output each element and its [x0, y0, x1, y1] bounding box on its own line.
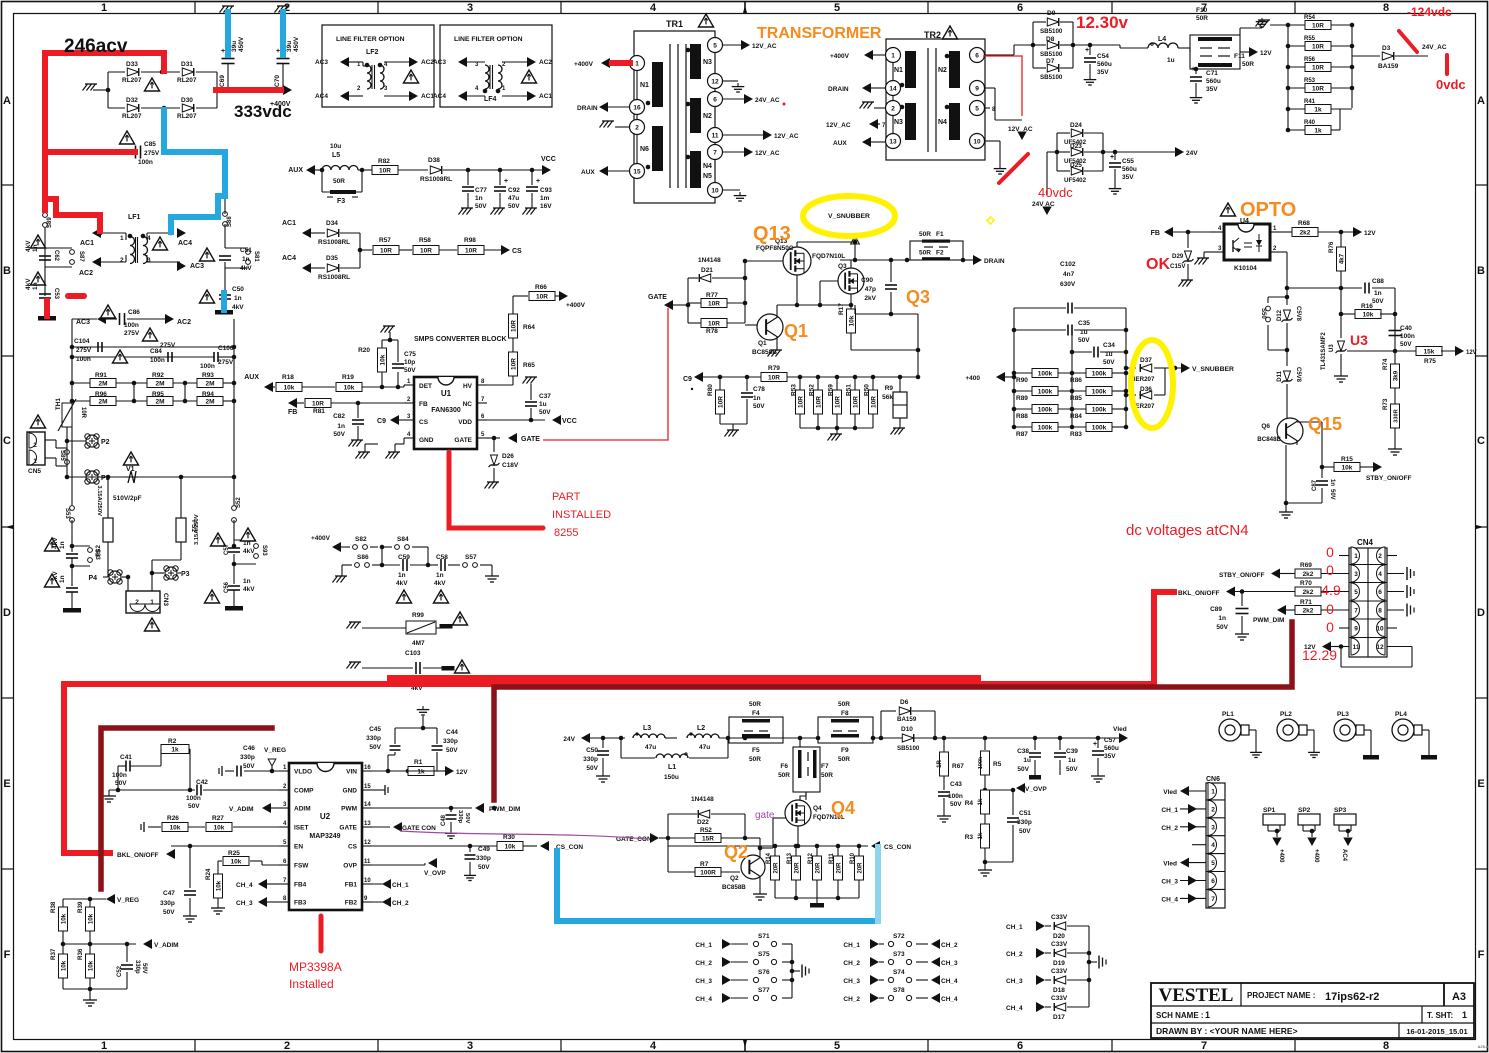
- warning triangle bridge: [144, 78, 159, 91]
- TR1 winding N2: [690, 98, 701, 133]
- svg-text:330p: 330p: [443, 738, 458, 745]
- svg-text:FSW: FSW: [294, 863, 309, 870]
- switch S88: [223, 212, 228, 217]
- svg-text:275V: 275V: [160, 342, 176, 349]
- svg-text:50R: 50R: [919, 250, 931, 257]
- svg-text:R55: R55: [1304, 36, 1316, 42]
- svg-text:Q1: Q1: [784, 321, 808, 341]
- LF2 pins wires: [348, 61, 363, 63]
- svg-text:C55: C55: [1122, 158, 1134, 165]
- svg-text:4: 4: [650, 2, 657, 14]
- 12V arrow out: [1249, 47, 1258, 57]
- 100k grid resistors: [1014, 372, 1032, 374]
- svg-text:AC2: AC2: [79, 270, 93, 277]
- svg-text:R74: R74: [1382, 358, 1389, 370]
- svg-text:2k2: 2k2: [1303, 589, 1314, 596]
- svg-text:6: 6: [1017, 1040, 1023, 1052]
- svg-text:S88: S88: [227, 216, 233, 227]
- resistor R36 10k vertical: [86, 954, 95, 978]
- svg-text:50V: 50V: [369, 744, 381, 751]
- svg-text:R95: R95: [152, 391, 164, 398]
- test point P2: [67, 440, 86, 442]
- TR2 pin 10: [970, 134, 985, 149]
- capacitor C88 1n 50V: [1364, 283, 1366, 294]
- TR1 pin 2: [630, 120, 645, 135]
- capacitor C87 1n 50V: [1321, 467, 1323, 478]
- svg-text:50V: 50V: [1078, 337, 1090, 344]
- svg-text:C75: C75: [404, 351, 416, 358]
- svg-text:2M: 2M: [205, 399, 214, 406]
- svg-text:R27: R27: [212, 815, 224, 822]
- wire left column: [44, 228, 46, 245]
- svg-text:C50: C50: [232, 286, 244, 293]
- svg-text:OVP: OVP: [343, 863, 357, 870]
- svg-text:15R: 15R: [702, 836, 714, 843]
- ground right S57: [491, 565, 493, 572]
- svg-text:1R: 1R: [937, 759, 943, 767]
- svg-text:VCC: VCC: [541, 156, 556, 163]
- resistor R26 10k: [148, 826, 161, 828]
- svg-text:50V: 50V: [1372, 298, 1384, 305]
- svg-text:50V: 50V: [1103, 359, 1115, 366]
- svg-text:S76: S76: [758, 969, 770, 976]
- svg-text:CH_4: CH_4: [1161, 896, 1178, 903]
- svg-text:0: 0: [1326, 619, 1334, 635]
- svg-text:C89: C89: [1210, 606, 1222, 613]
- svg-text:330p: 330p: [583, 756, 598, 763]
- wire HV pin8: [487, 384, 513, 386]
- zener D26 C18V: [493, 438, 495, 452]
- svg-text:Q4: Q4: [831, 798, 855, 818]
- resistor R57 10R: [373, 246, 399, 255]
- svg-text:47u: 47u: [645, 744, 656, 751]
- fuse FS2 3.15A/250V: [103, 518, 113, 542]
- svg-text:Vled: Vled: [1163, 789, 1177, 796]
- svg-text:100n: 100n: [112, 772, 127, 779]
- svg-text:C9: C9: [377, 418, 386, 425]
- svg-text:100k: 100k: [1038, 371, 1053, 378]
- svg-text:C84: C84: [150, 348, 162, 355]
- svg-text:50V: 50V: [475, 203, 487, 210]
- svg-text:R16: R16: [1361, 303, 1373, 310]
- svg-text:50V: 50V: [115, 780, 127, 787]
- diode D33 RL207: [127, 68, 138, 76]
- svg-text:R59: R59: [828, 384, 835, 396]
- wire red stub near C53: [68, 293, 84, 299]
- node bridge right: [217, 89, 286, 91]
- capacitor C55 560u 35V: [1114, 152, 1116, 160]
- svg-text:E: E: [3, 778, 10, 790]
- svg-text:0vdc: 0vdc: [1436, 77, 1466, 92]
- svg-text:+: +: [1191, 66, 1195, 73]
- capacitor C51 1n 4kV: [219, 255, 231, 257]
- wire Q1 emitter ground: [776, 336, 778, 350]
- svg-text:BA159: BA159: [897, 716, 917, 723]
- svg-text:C62: C62: [53, 250, 59, 262]
- svg-text:AC2: AC2: [539, 59, 552, 66]
- capacitor C57b 560u 35V: [1097, 738, 1099, 748]
- wire red C53 ground stub: [44, 301, 50, 316]
- svg-text:4kV: 4kV: [52, 537, 59, 549]
- thermistor TH1: [62, 403, 72, 427]
- svg-text:1n: 1n: [398, 572, 406, 579]
- capacitor C71 560u 35V: [1194, 67, 1199, 72]
- svg-text:10R: 10R: [379, 168, 391, 175]
- svg-text:P2: P2: [101, 439, 110, 446]
- svg-text:TL431SAMF2: TL431SAMF2: [1321, 332, 1327, 370]
- svg-text:C33V: C33V: [1051, 914, 1068, 921]
- svg-text:R9: R9: [885, 385, 894, 392]
- svg-text:7: 7: [713, 150, 717, 157]
- main drain rail: [840, 259, 910, 261]
- capacitor C49 330p 50V: [469, 846, 471, 852]
- switch S52: [232, 506, 237, 511]
- wire U3 ref to R74: [1347, 350, 1395, 352]
- chassis ground C69: [222, 5, 234, 7]
- svg-text:SB5100: SB5100: [1040, 28, 1063, 35]
- svg-text:275V: 275V: [76, 347, 92, 354]
- svg-text:F2: F2: [936, 250, 944, 257]
- capacitor C65 1n 4kV: [71, 520, 73, 552]
- 12V_AC arrow pin11: [763, 130, 772, 140]
- svg-text:CH_1: CH_1: [843, 942, 860, 949]
- svg-text:RS1008RL: RS1008RL: [318, 239, 350, 246]
- wire blue C50 stub: [221, 293, 227, 310]
- resistor R5 100k vertical: [984, 738, 986, 750]
- svg-text:1k: 1k: [171, 747, 179, 754]
- svg-text:S86: S86: [357, 554, 369, 561]
- svg-text:2: 2: [120, 257, 124, 264]
- capacitor C34 1u 50V: [1072, 351, 1092, 353]
- svg-text:4kV: 4kV: [232, 304, 244, 311]
- Q15 emitter ground: [1296, 440, 1298, 445]
- resistor R81 10R: [305, 399, 331, 408]
- svg-text:C39: C39: [1066, 748, 1078, 755]
- svg-text:Q6: Q6: [1261, 423, 1270, 430]
- wire R76 to U3: [1340, 288, 1342, 338]
- warning triangle C59: [396, 590, 411, 603]
- svg-text:R38: R38: [50, 901, 57, 913]
- svg-text:CN5: CN5: [28, 468, 41, 475]
- TR2 winding N1: [905, 51, 916, 88]
- svg-text:GATE: GATE: [339, 825, 357, 832]
- svg-text:S73: S73: [893, 951, 905, 958]
- svg-text:C: C: [1477, 435, 1485, 447]
- AC4 arrow D35: [302, 263, 311, 273]
- svg-text:50V: 50V: [586, 765, 598, 772]
- svg-text:4kV: 4kV: [25, 240, 32, 252]
- svg-text:F4: F4: [752, 710, 760, 717]
- transistor Q2 BC858B: [741, 855, 765, 879]
- svg-text:50V: 50V: [508, 203, 520, 210]
- svg-text:50V: 50V: [333, 431, 345, 438]
- svg-text:SB5100: SB5100: [1040, 51, 1063, 58]
- svg-text:35V: 35V: [1104, 753, 1116, 760]
- capacitor C59 1n 4kV: [382, 564, 400, 566]
- svg-text:5: 5: [834, 1040, 840, 1052]
- resistor R92 2M: [116, 382, 147, 384]
- CH_2 arrow U2: [372, 901, 390, 903]
- svg-text:330p: 330p: [1017, 819, 1032, 826]
- Q15 collector to R15: [1297, 421, 1322, 423]
- fuse F6 F7 vertical: [793, 747, 820, 792]
- svg-text:R37: R37: [50, 948, 57, 960]
- +400V arrow TR1: [601, 58, 610, 68]
- TR1 pin 6: [708, 92, 723, 107]
- svg-text:16-01-2015_15.01: 16-01-2015_15.01: [1406, 1027, 1467, 1036]
- svg-text:50V: 50V: [446, 747, 458, 754]
- svg-text:S81: S81: [253, 251, 259, 262]
- svg-text:R19: R19: [342, 374, 354, 381]
- svg-text:RL207: RL207: [122, 77, 142, 84]
- right col C57 C56: [233, 520, 235, 546]
- svg-text:A: A: [3, 95, 11, 107]
- AC2 arrow: [92, 257, 101, 267]
- TR2 right wires: [984, 54, 1000, 56]
- svg-text:R83: R83: [1070, 431, 1082, 438]
- svg-text:D29: D29: [1172, 253, 1184, 260]
- svg-text:AUX: AUX: [833, 140, 847, 147]
- diode D35 RS1008RL: [327, 264, 338, 272]
- svg-text:50V: 50V: [1066, 766, 1078, 773]
- switch S93 loop: [234, 539, 256, 541]
- svg-text:24V: 24V: [563, 736, 575, 743]
- svg-text:10k: 10k: [88, 913, 95, 924]
- svg-text:9: 9: [975, 86, 979, 93]
- svg-text:CS_CON: CS_CON: [556, 844, 583, 851]
- AUX arrow TR1: [599, 166, 608, 176]
- svg-text:C103: C103: [405, 650, 421, 657]
- fuse FS1 3.15A/250V: [176, 518, 186, 542]
- svg-text:10R: 10R: [80, 407, 86, 419]
- svg-text:C69: C69: [219, 75, 226, 87]
- svg-text:D38: D38: [428, 157, 440, 164]
- TR1 winding N3: [690, 44, 701, 79]
- resistor R66 10R: [512, 296, 514, 314]
- mosfet Q3: [838, 268, 864, 294]
- svg-text:10k: 10k: [849, 315, 856, 326]
- svg-text:2M: 2M: [98, 399, 107, 406]
- svg-text:330p: 330p: [160, 900, 175, 907]
- svg-text:R26: R26: [167, 815, 179, 822]
- node fuse rail: [745, 737, 800, 739]
- svg-text:50R: 50R: [821, 772, 833, 779]
- svg-text:C33V: C33V: [1051, 968, 1068, 975]
- svg-text:AC2: AC2: [177, 319, 191, 326]
- svg-text:C78: C78: [753, 386, 765, 393]
- resistor R82 10R: [372, 166, 398, 175]
- svg-text:DRAIN: DRAIN: [577, 105, 598, 112]
- svg-text:333vdc: 333vdc: [234, 102, 292, 121]
- capacitor C106: [213, 352, 215, 362]
- svg-text:2: 2: [1378, 553, 1382, 560]
- svg-text:PWM: PWM: [341, 806, 357, 813]
- svg-text:450V: 450V: [293, 36, 300, 52]
- svg-text:100k: 100k: [1038, 407, 1053, 414]
- red stub MP3398A: [319, 916, 324, 951]
- svg-text:+400: +400: [1278, 849, 1284, 863]
- svg-text:R53: R53: [791, 384, 798, 396]
- svg-text:1u: 1u: [539, 401, 547, 408]
- capacitor C52 330p 50V: [126, 944, 128, 962]
- svg-text:330p: 330p: [134, 960, 140, 974]
- U1 pin stubs: [404, 384, 414, 386]
- ground left S86: [341, 565, 343, 576]
- svg-text:50R: 50R: [1242, 61, 1254, 68]
- svg-text:GND: GND: [419, 437, 434, 444]
- svg-text:RL207: RL207: [177, 113, 197, 120]
- svg-text:C: C: [3, 435, 11, 447]
- svg-text:HER207: HER207: [1131, 376, 1155, 383]
- svg-text:R86: R86: [1070, 377, 1082, 384]
- svg-text:4: 4: [147, 235, 151, 242]
- svg-text:5: 5: [713, 43, 717, 50]
- svg-text:EN: EN: [294, 844, 303, 851]
- svg-text:4kV: 4kV: [434, 580, 446, 587]
- svg-text:CH_3: CH_3: [843, 978, 860, 985]
- svg-text:C102: C102: [1060, 261, 1076, 268]
- svg-text:C33V: C33V: [1051, 941, 1068, 948]
- switch S81 loop: [225, 247, 248, 249]
- transistor Q15 BC848B: [1277, 418, 1303, 444]
- svg-text:2: 2: [635, 125, 639, 132]
- svg-text:0: 0: [1326, 562, 1334, 578]
- svg-text:R79: R79: [768, 365, 780, 372]
- svg-text:4n7: 4n7: [1063, 271, 1075, 278]
- svg-text:8255: 8255: [554, 527, 578, 539]
- diode D37 HER207: [1126, 367, 1136, 369]
- opto pin2 down: [1284, 251, 1287, 253]
- svg-text:1n: 1n: [1329, 479, 1335, 486]
- resistor R96 2M: [72, 400, 90, 402]
- svg-text:C86: C86: [128, 309, 140, 316]
- resistor R71 2k2: [1295, 606, 1321, 615]
- svg-text:S83: S83: [94, 549, 100, 560]
- TR2 winding N4: [949, 103, 960, 140]
- svg-text:N3: N3: [894, 119, 903, 126]
- svg-text:R69: R69: [1300, 562, 1312, 569]
- svg-text:C82: C82: [333, 413, 345, 420]
- svg-text:PART: PART: [552, 491, 581, 503]
- svg-text:1n: 1n: [475, 195, 483, 202]
- svg-text:6: 6: [1378, 589, 1382, 596]
- bank ground: [775, 897, 859, 899]
- resistor R9 56k: [899, 377, 901, 392]
- svg-text:+: +: [1093, 741, 1097, 748]
- svg-text:50V: 50V: [163, 909, 175, 916]
- svg-text:246acv: 246acv: [64, 36, 128, 57]
- warning triangle C56: [204, 590, 219, 603]
- C9 arrow U1 CS: [390, 415, 399, 425]
- FB arrow R81: [288, 398, 297, 408]
- svg-text:S84: S84: [397, 536, 409, 543]
- svg-text:R40: R40: [1304, 120, 1316, 126]
- svg-text:100n: 100n: [1400, 333, 1415, 340]
- svg-text:R18: R18: [282, 374, 294, 381]
- switch S53: [70, 506, 75, 511]
- svg-text:D30: D30: [181, 97, 193, 104]
- svg-text:CH_2: CH_2: [843, 960, 860, 967]
- svg-text:C42: C42: [196, 779, 208, 786]
- svg-text:R30: R30: [503, 834, 515, 841]
- svg-text:V_SNUBBER: V_SNUBBER: [828, 213, 870, 220]
- wire C90 lower rail: [855, 313, 918, 315]
- svg-text:E: E: [1477, 778, 1484, 790]
- resistor R19 10k: [336, 383, 362, 392]
- line filter option box LF4: [440, 25, 552, 107]
- svg-text:330p: 330p: [476, 855, 491, 862]
- svg-text:330p: 330p: [240, 754, 255, 761]
- svg-text:50V: 50V: [1216, 624, 1228, 631]
- svg-text:24V_AC: 24V_AC: [755, 97, 780, 104]
- svg-text:R78: R78: [706, 328, 718, 335]
- resistor R64 10R vertical: [509, 314, 518, 338]
- svg-text:100n: 100n: [76, 356, 91, 363]
- svg-text:7: 7: [1354, 608, 1358, 615]
- wire Q3 source to R17: [850, 294, 852, 309]
- CS pin12 row: [372, 845, 497, 847]
- TR2 pin 6: [970, 48, 985, 63]
- svg-text:50R: 50R: [749, 701, 761, 708]
- svg-text:50V: 50V: [539, 409, 551, 416]
- ground R20 C75: [382, 339, 398, 341]
- svg-text:510V/2pF: 510V/2pF: [113, 495, 142, 502]
- +400V arrow TR2: [864, 50, 873, 60]
- wire red U1 gate elbow annotation: [449, 452, 543, 528]
- svg-text:INSTALLED: INSTALLED: [552, 509, 611, 521]
- svg-text:GND: GND: [343, 788, 358, 795]
- svg-text:8: 8: [1378, 608, 1382, 615]
- svg-text:50R: 50R: [919, 231, 931, 238]
- svg-text:LF1: LF1: [128, 214, 141, 221]
- capacitor C82 1n 50V: [356, 401, 361, 406]
- svg-text:C70: C70: [274, 75, 281, 87]
- svg-text:BC858B: BC858B: [722, 884, 746, 891]
- svg-text:47u: 47u: [508, 195, 519, 202]
- svg-text:T. SHT:: T. SHT:: [1427, 1011, 1453, 1020]
- svg-text:VIN: VIN: [346, 769, 357, 776]
- svg-text:TH1: TH1: [55, 398, 62, 411]
- warning triangle C57: [210, 533, 225, 546]
- svg-text:R10: R10: [850, 852, 856, 864]
- test point P3: [165, 567, 177, 579]
- svg-text:TRANSFORMER: TRANSFORMER: [757, 25, 882, 42]
- svg-text:56k: 56k: [882, 394, 893, 401]
- svg-text:12V_AC: 12V_AC: [752, 43, 777, 50]
- svg-text:4.9: 4.9: [1321, 582, 1341, 598]
- svg-text:15: 15: [633, 169, 641, 176]
- svg-text:D6: D6: [900, 699, 909, 706]
- svg-text:S87: S87: [78, 251, 84, 262]
- svg-text:1: 1: [635, 61, 639, 68]
- 100k resistor grid rails: [1013, 308, 1015, 427]
- svg-text:15k: 15k: [1424, 349, 1435, 356]
- node bridge top mid: [160, 70, 165, 75]
- capacitor C85 100n 275V: [135, 146, 137, 159]
- svg-text:C5V8: C5V8: [1295, 367, 1301, 383]
- inductor L5 10u 50R F3: [315, 169, 322, 171]
- svg-text:PL2: PL2: [1280, 711, 1292, 718]
- svg-text:12: 12: [364, 840, 371, 846]
- svg-text:AC3: AC3: [76, 319, 90, 326]
- svg-text:R57: R57: [379, 237, 391, 244]
- svg-text:C59: C59: [398, 554, 410, 561]
- snubber resistor bank R53 R52 R59 R51 R50: [799, 377, 801, 390]
- svg-text:Q3: Q3: [906, 287, 930, 307]
- wire blue C69 stub: [225, 12, 231, 55]
- svg-text:F: F: [4, 949, 11, 961]
- svg-text:R15: R15: [1341, 456, 1353, 463]
